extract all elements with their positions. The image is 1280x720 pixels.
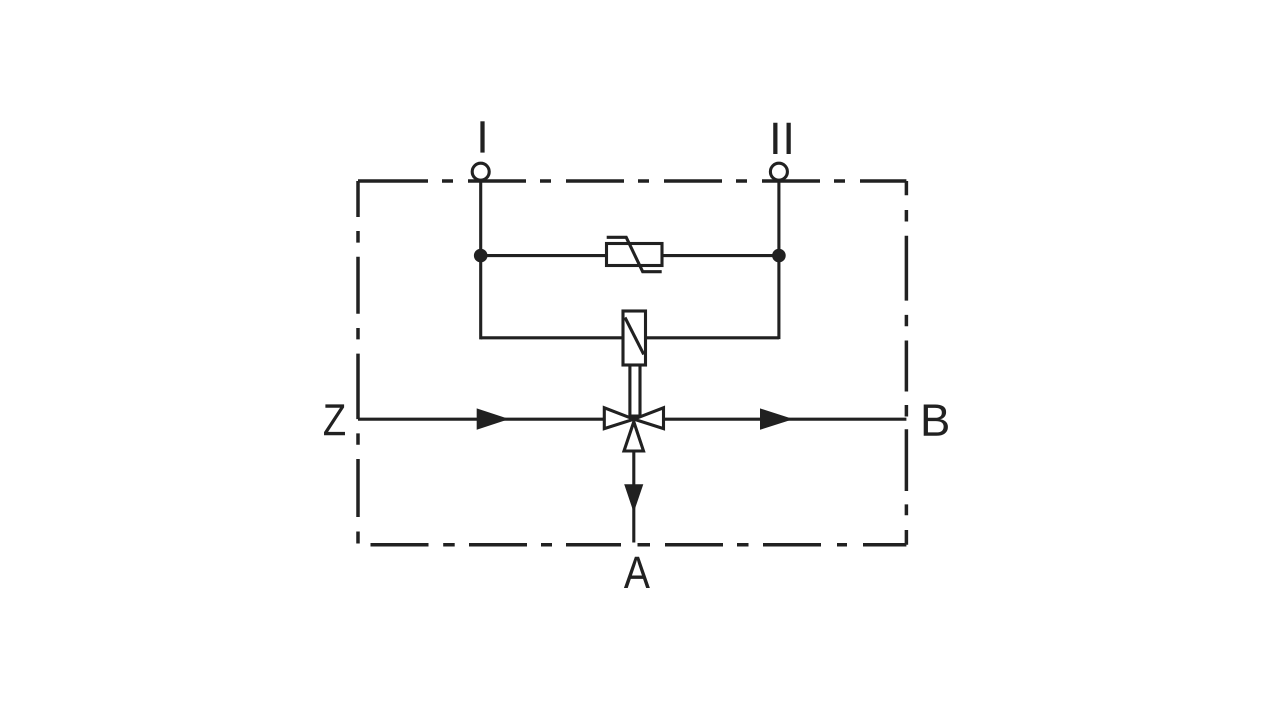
flow arrowhead toward A (filled) bbox=[624, 484, 643, 512]
throttle valve left triangle bbox=[604, 408, 634, 429]
enclosure dash-dot border, top edge bbox=[358, 179, 906, 183]
port label Z bbox=[324, 404, 345, 435]
wire from terminal I down to lower rail bbox=[479, 180, 482, 339]
main line B segment bbox=[664, 418, 907, 421]
port label A bbox=[624, 557, 650, 588]
flow arrow on Z segment bbox=[477, 408, 510, 429]
pilot channel double line bbox=[629, 365, 642, 417]
main line Z segment bbox=[358, 418, 604, 421]
enclosure dash-dot border, left edge bbox=[356, 181, 360, 544]
throttle valve right triangle bbox=[634, 408, 664, 429]
junction dot left bbox=[474, 249, 488, 263]
enclosure dash-dot border, right edge bbox=[905, 181, 909, 545]
port label I bbox=[480, 121, 484, 152]
junction dot right bbox=[772, 249, 786, 263]
check valve poppet (open triangle) bbox=[624, 422, 644, 451]
flow arrow on B segment bbox=[760, 408, 793, 429]
enclosure dash-dot border, bottom edge bbox=[371, 543, 907, 547]
wire lower rail left bbox=[481, 336, 623, 339]
port label II bbox=[773, 123, 791, 154]
wire lower rail right bbox=[646, 336, 779, 339]
wire from terminal II down to lower rail bbox=[777, 180, 780, 339]
pilot valve element (rectangle with diagonal) bbox=[623, 311, 646, 365]
terminal circle I bbox=[472, 163, 489, 180]
wire upper rail right (restrictor to junction) bbox=[662, 254, 779, 257]
wire to port A bbox=[632, 451, 635, 543]
wire upper rail left (junction to restrictor) bbox=[481, 254, 607, 257]
terminal circle II bbox=[770, 163, 787, 180]
port label B bbox=[924, 405, 948, 436]
variable restrictor (box with diagonal and tails) bbox=[607, 237, 663, 271]
